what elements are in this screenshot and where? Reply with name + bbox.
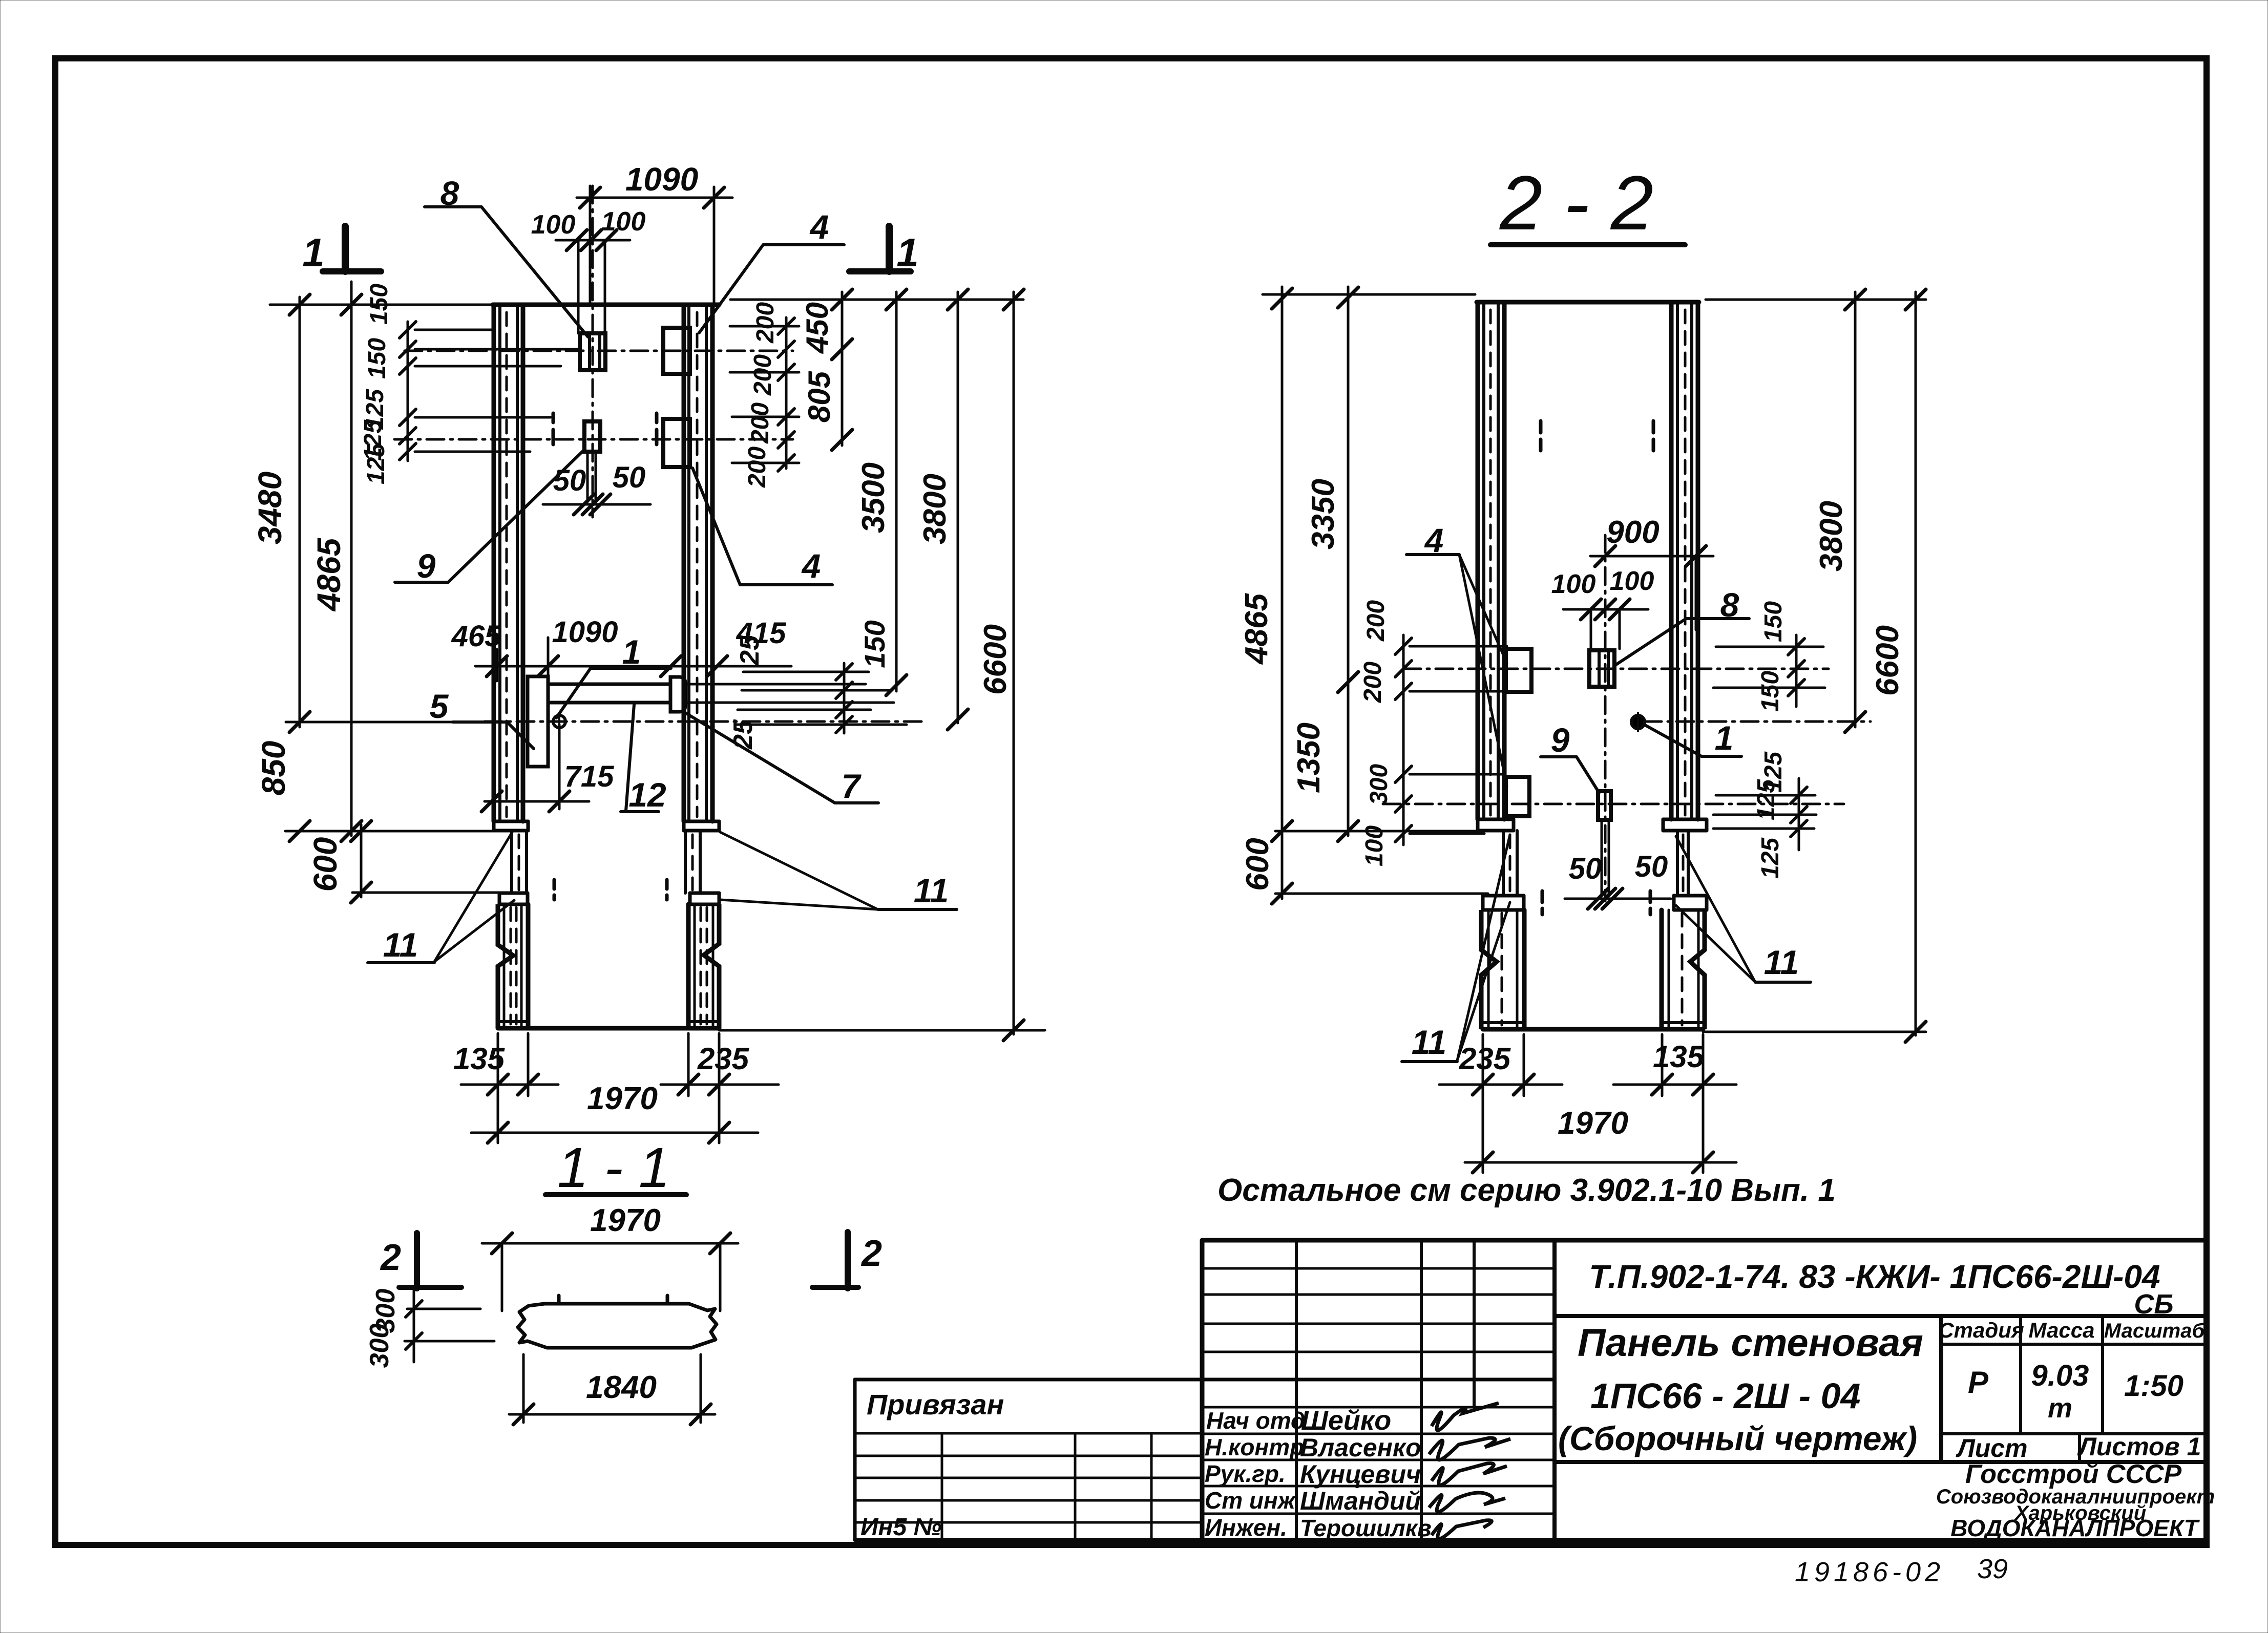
extension line bottom right view1 [719, 1029, 1045, 1032]
svg-text:1:50: 1:50 [2124, 1369, 2183, 1403]
section mark 1 right [849, 268, 911, 274]
titleblock signatures [1432, 1403, 1499, 1430]
svg-text:11: 11 [1764, 943, 1799, 981]
svg-text:200: 200 [744, 447, 771, 488]
view2 embedded plate 9 middle lower [1598, 791, 1611, 820]
titleblock grid row 2694 long [855, 1378, 1555, 1382]
svg-text:150: 150 [1757, 671, 1784, 712]
view2 panel bottom edge [1483, 1027, 1703, 1032]
svg-text:1090: 1090 [625, 161, 698, 198]
svg-text:СБ: СБ [2134, 1289, 2173, 1320]
view1 interior cut marks upper [552, 413, 555, 422]
svg-text:1970: 1970 [590, 1203, 661, 1238]
svg-text:600: 600 [307, 837, 344, 892]
view1 embedded plate 4 lower on right column [663, 419, 690, 467]
view2 left chains: extension top [1263, 293, 1475, 296]
view2 right column upper part [1669, 302, 1674, 819]
titleblock name cell divider [1939, 1316, 1943, 1462]
svg-text:600: 600 [1240, 838, 1275, 890]
view2 panel top edge [1477, 300, 1699, 305]
svg-text:50: 50 [1635, 850, 1668, 883]
view1 right column cap2 [690, 892, 719, 895]
section1-1 slab outline [518, 1304, 717, 1348]
svg-text:11: 11 [1412, 1023, 1447, 1061]
section1-1 lifting loop marks [557, 1296, 561, 1304]
svg-text:19186-02: 19186-02 [1795, 1557, 1944, 1587]
extension line top left [270, 304, 493, 306]
titleblock left box privyazan [853, 1380, 857, 1540]
section mark 2 left [414, 1233, 420, 1288]
svg-text:Госстрой СССР: Госстрой СССР [1965, 1459, 2182, 1489]
view1 bar lines extended right [685, 683, 866, 686]
svg-text:150: 150 [858, 620, 891, 668]
svg-text:7: 7 [842, 767, 862, 805]
svg-text:100: 100 [601, 207, 646, 237]
view2 embedded plate 4 upper on left column [1506, 649, 1531, 692]
svg-text:1: 1 [896, 230, 918, 275]
svg-text:5: 5 [430, 687, 449, 725]
view2 small chain 150/150 right [1795, 635, 1798, 707]
svg-text:11: 11 [383, 926, 418, 964]
svg-text:100: 100 [1610, 566, 1654, 596]
svg-text:(Сборочный чертеж): (Сборочный чертеж) [1558, 1419, 1917, 1457]
view2 embedded plate 8 middle [1589, 650, 1614, 687]
svg-text:200: 200 [752, 302, 779, 344]
svg-text:4865: 4865 [310, 537, 347, 612]
svg-text:2: 2 [860, 1233, 882, 1274]
view1 interior cut marks lower [553, 880, 556, 889]
svg-text:Шейко: Шейко [1301, 1405, 1391, 1436]
view2 extension line bottom right [1703, 1031, 1926, 1033]
view1 plate9 anchor legs below [586, 452, 589, 502]
view2 extension verticals bottom [1482, 1034, 1484, 1173]
svg-text:Р: Р [1968, 1365, 1989, 1399]
view2 left column upper part [1476, 302, 1480, 819]
svg-text:125: 125 [1757, 837, 1784, 879]
extension verticals bottom view1 [497, 1033, 499, 1143]
svg-text:2: 2 [380, 1237, 401, 1278]
svg-text:300: 300 [1366, 764, 1393, 805]
titleblock left box rows [855, 1432, 1202, 1435]
view1 bar end plate item7 [670, 677, 685, 712]
svg-text:300: 300 [365, 1324, 394, 1368]
view1 left column joint strip [510, 831, 513, 893]
svg-text:1970: 1970 [1558, 1106, 1628, 1141]
svg-text:125: 125 [1753, 779, 1780, 820]
svg-text:850: 850 [255, 741, 292, 796]
svg-text:1ПС66 - 2Ш - 04: 1ПС66 - 2Ш - 04 [1590, 1376, 1860, 1416]
view1 left column cap1 [494, 820, 528, 823]
svg-text:Панель стеновая: Панель стеновая [1578, 1321, 1923, 1365]
svg-text:50: 50 [613, 461, 646, 494]
view2 bolt dot item1 [1631, 715, 1645, 729]
svg-text:4: 4 [809, 208, 829, 246]
svg-text:3480: 3480 [251, 472, 288, 544]
view2 right column lower part with notch [1690, 910, 1705, 1029]
titleblock left box verticals [941, 1433, 943, 1540]
view1 right column cap1 [684, 820, 719, 823]
view1 panel top edge [493, 303, 719, 307]
svg-text:Привязан: Привязан [867, 1388, 1004, 1420]
svg-text:125: 125 [363, 443, 390, 484]
svg-text:1: 1 [1715, 719, 1734, 757]
svg-text:Ст инж: Ст инж [1205, 1487, 1296, 1514]
view1 plate8 anchor legs above [577, 240, 580, 333]
svg-text:465: 465 [451, 620, 502, 653]
svg-text:Кунцевич: Кунцевич [1300, 1460, 1421, 1489]
view1 right column upper part [682, 305, 686, 821]
svg-text:39: 39 [1977, 1554, 2008, 1584]
view1 left column upper part [492, 305, 496, 821]
extension line y1743 left [352, 892, 507, 894]
small chain 200x4 right [785, 317, 788, 469]
svg-text:3500: 3500 [856, 462, 891, 533]
svg-text:Терошилкв: Терошилкв [1300, 1515, 1432, 1541]
svg-text:Стадия: Стадия [1938, 1318, 2024, 1342]
view1 bar centreline [485, 720, 922, 723]
view2 horizontal centreline lower [1383, 803, 1844, 805]
small chain 150/150/125 left [407, 322, 409, 461]
extension line top right view1 [730, 299, 1023, 301]
view2 small chain 200/200/300/100 [1402, 635, 1405, 845]
view1 support bar item1 [548, 683, 670, 686]
svg-text:1: 1 [302, 230, 324, 275]
view2 right column cap1 [1663, 818, 1707, 821]
svg-text:1090: 1090 [552, 616, 618, 649]
view2 right chains: extension top [1706, 299, 1926, 301]
view2 left column joint strip [1502, 831, 1505, 896]
view1 horizontal centreline lower (plates 9/4) [394, 438, 793, 441]
svg-text:Власенко: Власенко [1300, 1433, 1421, 1462]
view2 interior cut marks lower [1541, 891, 1544, 902]
svg-text:1350: 1350 [1291, 723, 1327, 793]
titleblock staff rows [1202, 1406, 1555, 1409]
svg-text:Нач отд: Нач отд [1206, 1407, 1305, 1434]
svg-text:6600: 6600 [978, 624, 1013, 695]
svg-text:3800: 3800 [917, 474, 953, 544]
view1 bracket item5 [528, 676, 548, 767]
svg-text:100: 100 [1551, 569, 1596, 599]
svg-text:805: 805 [802, 370, 836, 422]
view2 extension lines left [1275, 830, 1485, 833]
svg-text:Инжен.: Инжен. [1205, 1514, 1287, 1541]
titleblock stadia massa masshtab values [1941, 1432, 2207, 1435]
svg-text:150: 150 [366, 284, 393, 325]
svg-text:200: 200 [749, 354, 776, 396]
svg-text:1 - 1: 1 - 1 [557, 1136, 670, 1199]
svg-text:Т.П.902-1-74. 83 -КЖИ- 1ПС66-2: Т.П.902-1-74. 83 -КЖИ- 1ПС66-2Ш-04 [1589, 1258, 2160, 1295]
svg-text:1970: 1970 [587, 1081, 658, 1116]
svg-text:12: 12 [628, 776, 666, 814]
svg-text:Остальное см серию 3.902.: Остальное см серию 3.902.1-10 Вып. 1 [1217, 1173, 1836, 1208]
titleblock middle grid outer [1202, 1238, 2207, 1243]
svg-text:25: 25 [735, 635, 765, 666]
titleblock bottom line [855, 1538, 2207, 1542]
svg-text:6600: 6600 [1870, 625, 1905, 696]
titleblock grid verticals [1295, 1240, 1298, 1540]
titleblock designation cell [1555, 1314, 2207, 1318]
svg-text:200: 200 [1359, 662, 1387, 703]
section mark 2 right [845, 1232, 851, 1288]
titleblock grid rows [1202, 1267, 1555, 1270]
svg-text:25: 25 [728, 719, 758, 750]
view1 right column lower part with notch [704, 904, 719, 1028]
view1 embedded plate 8 (upper middle) [580, 333, 605, 370]
view1 embedded plate 4 upper on right column [663, 328, 690, 374]
svg-text:Масса: Масса [2029, 1318, 2095, 1342]
svg-text:ВОДОКАНАЛПРОЕКТ: ВОДОКАНАЛПРОЕКТ [1950, 1515, 2200, 1541]
svg-text:Ин5 №: Ин5 № [860, 1514, 942, 1541]
view2 plate9 anchor legs [1601, 820, 1603, 896]
svg-text:9: 9 [417, 547, 436, 585]
section mark 1 left [323, 268, 381, 274]
svg-text:100: 100 [531, 210, 576, 240]
extension line y1623 left [285, 830, 495, 833]
svg-text:100: 100 [1361, 825, 1388, 866]
svg-text:4865: 4865 [1239, 593, 1274, 665]
svg-text:Н.контр: Н.контр [1205, 1434, 1304, 1460]
view1 left column cap2 [499, 892, 528, 895]
svg-text:Листов 1: Листов 1 [2077, 1432, 2201, 1461]
svg-text:50: 50 [553, 464, 586, 497]
svg-text:1840: 1840 [586, 1370, 657, 1405]
svg-text:3800: 3800 [1814, 501, 1849, 571]
svg-text:Шмандий: Шмандий [1300, 1487, 1421, 1515]
svg-text:Масштаб: Масштаб [2104, 1320, 2206, 1342]
view2 column feet lines [1481, 1021, 1524, 1024]
view1 panel bottom edge [498, 1026, 719, 1031]
svg-text:4: 4 [801, 547, 821, 585]
svg-text:3350: 3350 [1306, 479, 1341, 549]
view2 left column cap2 [1483, 894, 1524, 898]
view1 embedded plate 9 (lower middle) [584, 421, 600, 452]
svg-text:200: 200 [747, 402, 774, 444]
view2 left column cap1 [1478, 818, 1514, 821]
view1 vertical centreline through plates 8/9 [592, 186, 594, 517]
svg-text:2 - 2: 2 - 2 [1499, 160, 1653, 246]
view2 small chain 125/125/125 right [1798, 778, 1800, 850]
view2 vertical centreline plates [1604, 535, 1607, 901]
svg-text:235: 235 [697, 1042, 750, 1076]
svg-text:Лист: Лист [1956, 1434, 2027, 1462]
titleblock stadia massa masshtab header [1941, 1343, 2207, 1346]
view1 horizontal centreline upper (plates 8/4) [405, 350, 793, 352]
view2 interior cut marks upper [1539, 421, 1543, 433]
view2 left column lower part with notch [1481, 910, 1497, 1029]
view2 right column cap2 [1674, 894, 1707, 898]
extension line y1410 left [286, 721, 481, 724]
view1 left column lower part with notch [498, 904, 513, 1028]
svg-text:235: 235 [1459, 1042, 1511, 1076]
svg-text:200: 200 [1362, 600, 1390, 642]
svg-text:715: 715 [564, 760, 615, 793]
svg-text:150: 150 [1760, 601, 1787, 642]
view2 dot centreline [1644, 720, 1871, 723]
view1 right column joint strip [684, 831, 687, 893]
svg-text:11: 11 [914, 872, 949, 909]
svg-text:50: 50 [1569, 852, 1602, 885]
view2 right column joint strip [1676, 831, 1679, 896]
svg-text:150: 150 [364, 338, 391, 379]
view2 embedded plate 4 lower on left column [1506, 777, 1529, 816]
svg-text:9.03: 9.03 [2031, 1359, 2089, 1392]
svg-text:135: 135 [1653, 1040, 1705, 1074]
view1 column feet lines [498, 1020, 528, 1023]
svg-text:Рук.гр.: Рук.гр. [1205, 1460, 1286, 1487]
view2 horizontal centreline upper [1403, 668, 1829, 670]
svg-text:450: 450 [800, 302, 834, 354]
small chain 25/150/25 right [843, 663, 846, 733]
view1 bolt circle [553, 715, 565, 728]
svg-text:9: 9 [1551, 721, 1570, 759]
svg-text:т: т [2048, 1393, 2072, 1424]
